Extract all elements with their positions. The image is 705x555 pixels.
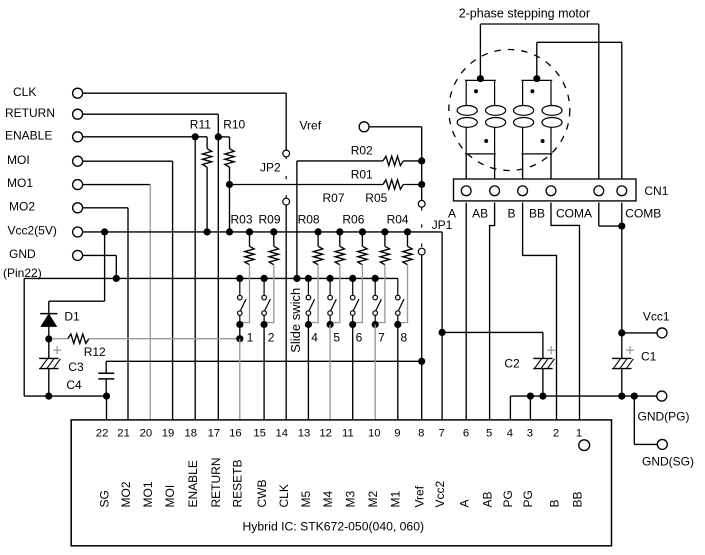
svg-text:R09: R09 — [259, 213, 281, 227]
node RETURN junction — [215, 133, 222, 140]
svg-text:22: 22 — [96, 428, 109, 440]
svg-text:PG: PG — [501, 490, 515, 507]
CN1 terminal B — [518, 186, 528, 196]
wire Vref down — [369, 126, 422, 128]
svg-text:CLK: CLK — [277, 484, 291, 507]
wire COMB from winding B — [536, 42, 538, 78]
wire BB to pin1 — [551, 203, 580, 420]
wire switch7 to pin10 — [374, 325, 376, 420]
node switch1 bottom — [236, 321, 243, 328]
wire switch4 to pin13 — [307, 325, 309, 420]
wire MOI to pin19 — [83, 160, 173, 162]
svg-text:7: 7 — [439, 428, 445, 440]
svg-text:BB: BB — [570, 491, 584, 507]
wire MO2 to pin21 — [83, 207, 128, 209]
terminal MO2 — [73, 203, 83, 213]
node pin8 C4 — [418, 358, 425, 365]
wire switch1 to pin16 — [239, 325, 241, 339]
svg-text:JP2: JP2 — [260, 161, 281, 175]
svg-text:8: 8 — [401, 331, 408, 345]
svg-text:7: 7 — [378, 331, 385, 345]
svg-text:MO2: MO2 — [9, 199, 35, 213]
node switch4 bottom — [305, 321, 312, 328]
svg-text:3: 3 — [527, 428, 533, 440]
svg-text:M3: M3 — [344, 491, 358, 508]
svg-text:R02: R02 — [351, 144, 373, 158]
node winding A center tap — [477, 75, 484, 82]
wire switch2 to pin15 — [263, 325, 265, 420]
svg-text:21: 21 — [117, 428, 130, 440]
svg-text:5: 5 — [486, 428, 492, 440]
svg-text:R12: R12 — [84, 345, 106, 359]
wire AB to pin5 — [490, 203, 495, 420]
node R02 rail — [293, 275, 300, 282]
node pin3 PG — [527, 393, 534, 400]
svg-text:R08: R08 — [298, 213, 320, 227]
svg-text:4: 4 — [507, 428, 513, 440]
wire ground rail — [24, 277, 398, 279]
svg-text:CN1: CN1 — [644, 184, 668, 198]
svg-text:RETURN: RETURN — [209, 458, 223, 508]
svg-text:ENABLE: ENABLE — [186, 460, 200, 507]
svg-text:20: 20 — [140, 428, 153, 440]
capacitor C2 — [533, 357, 552, 359]
svg-text:A: A — [448, 207, 456, 221]
svg-text:R03: R03 — [231, 213, 253, 227]
svg-text:Vref: Vref — [300, 119, 322, 133]
node R09 Vcc2 — [270, 228, 277, 235]
node D1-R12-C3 — [45, 335, 52, 342]
svg-text:1: 1 — [247, 331, 254, 345]
wire COMA link — [598, 203, 600, 227]
node R10 R01 — [226, 181, 233, 188]
node C3 ground — [45, 393, 52, 400]
svg-text:8: 8 — [418, 428, 424, 440]
svg-text:2: 2 — [553, 428, 559, 440]
svg-text:R11: R11 — [190, 117, 211, 131]
svg-text:R01: R01 — [351, 168, 373, 182]
node ENABLE junction — [192, 133, 199, 140]
slide switch 4 — [307, 278, 309, 295]
node switch6 rail — [349, 275, 356, 282]
slide switch 1 — [239, 278, 241, 295]
svg-text:B: B — [508, 207, 516, 221]
svg-text:R06: R06 — [342, 213, 364, 227]
svg-text:RESETB: RESETB — [231, 459, 245, 507]
resistor R03 — [249, 232, 251, 246]
connector CN1 box — [454, 179, 637, 201]
svg-text:MO2: MO2 — [119, 481, 133, 507]
node Vref-R01 — [418, 181, 425, 188]
resistor R07 — [339, 232, 341, 246]
CN1 terminal COMA — [594, 186, 604, 196]
node switch5 rail — [327, 275, 334, 282]
svg-text:9: 9 — [394, 428, 400, 440]
svg-text:11: 11 — [342, 428, 354, 440]
resistor R09 — [273, 232, 275, 246]
svg-text:Vcc2: Vcc2 — [433, 480, 447, 507]
wire to GND(SG) — [633, 396, 635, 444]
wire GND input — [83, 254, 117, 256]
motor winding B — [521, 79, 552, 81]
terminal MO1 — [73, 180, 83, 190]
svg-text:GND: GND — [9, 247, 36, 261]
svg-text:MO1: MO1 — [7, 176, 33, 190]
svg-text:M5: M5 — [299, 491, 313, 508]
svg-text:19: 19 — [162, 428, 175, 440]
resistor R08 — [317, 232, 319, 246]
node switch6 bottom — [349, 321, 356, 328]
terminal Vref — [359, 122, 369, 132]
svg-text:M1: M1 — [389, 491, 403, 508]
slide switch 2 — [263, 278, 265, 295]
svg-text:PG: PG — [521, 490, 535, 507]
slide switch 7 — [374, 278, 376, 295]
node switch1 rail — [236, 275, 243, 282]
resistor R01 — [230, 184, 384, 186]
svg-text:M2: M2 — [366, 491, 380, 508]
wire JP1 to pin8 — [421, 255, 423, 420]
node winding B center tap — [533, 75, 540, 82]
resistor R05 — [384, 232, 386, 246]
svg-text:Slide swich: Slide swich — [288, 288, 303, 353]
node Vcc2-D1 — [101, 228, 108, 235]
svg-text:2-phase stepping motor: 2-phase stepping motor — [459, 6, 590, 20]
terminal GND(PG) — [657, 391, 667, 401]
wire pin7 to C2 — [442, 331, 543, 333]
wire winding B leg B — [522, 154, 524, 179]
motor winding A — [465, 79, 496, 81]
svg-text:18: 18 — [185, 428, 198, 440]
svg-text:Vcc2(5V): Vcc2(5V) — [8, 224, 57, 238]
svg-text:B: B — [547, 499, 561, 507]
svg-text:COMB: COMB — [625, 207, 661, 221]
node R05 Vcc2 — [381, 228, 388, 235]
wire switch5 to pin12 — [329, 325, 331, 420]
svg-text:GND(PG): GND(PG) — [638, 409, 690, 423]
node R03 Vcc2 — [246, 228, 253, 235]
node switch7 rail — [372, 275, 379, 282]
svg-text:(Pin22): (Pin22) — [3, 266, 42, 280]
svg-text:AB: AB — [480, 491, 494, 507]
IC U1 box — [71, 420, 611, 546]
svg-text:D1: D1 — [64, 310, 80, 324]
node R11 Vcc2 — [204, 228, 211, 235]
capacitor C4 — [98, 372, 114, 374]
svg-text:COMA: COMA — [556, 207, 592, 221]
CN1 terminal BB — [546, 186, 556, 196]
terminal RETURN — [73, 109, 83, 119]
wire B to pin2 — [523, 203, 557, 420]
svg-text:RETURN: RETURN — [5, 106, 55, 120]
node switch5 bottom — [327, 321, 334, 328]
svg-text:A: A — [457, 499, 471, 507]
terminal CLK — [73, 88, 83, 98]
node C2 ground — [539, 393, 546, 400]
wire winding A leg A — [465, 154, 467, 179]
svg-text:C2: C2 — [504, 356, 520, 370]
node Vcc2 pin7 C2 — [439, 329, 446, 336]
node R08 Vcc2 — [315, 228, 322, 235]
node R04 Vcc2 — [404, 228, 411, 235]
wire winding B leg BB — [550, 154, 552, 179]
wire ENABLE — [83, 136, 196, 138]
node switch4 rail — [305, 275, 312, 282]
wire COMA from winding A — [479, 24, 481, 79]
wire RETURN — [83, 113, 219, 115]
svg-text:5: 5 — [333, 331, 340, 345]
svg-text:16: 16 — [229, 428, 242, 440]
motor outline dashed circle — [449, 50, 570, 171]
svg-text:MOI: MOI — [163, 485, 177, 508]
svg-text:R05: R05 — [365, 191, 387, 205]
resistor R02 — [297, 160, 383, 162]
node R07 Vcc2 — [336, 228, 343, 235]
wire winding A leg AB — [494, 154, 496, 179]
jumper JP2 — [283, 150, 290, 157]
svg-text:R04: R04 — [387, 213, 409, 227]
svg-text:13: 13 — [298, 428, 311, 440]
wire A to pin6 — [465, 203, 467, 420]
terminal Vcc2(5V) — [73, 227, 83, 237]
svg-text:Hybrid IC: STK672-050(040, 060: Hybrid IC: STK672-050(040, 060) — [243, 520, 425, 534]
capacitor C3 — [39, 357, 58, 359]
svg-text:15: 15 — [253, 428, 266, 440]
svg-text:C1: C1 — [641, 349, 657, 363]
svg-text:AB: AB — [472, 207, 488, 221]
svg-text:C3: C3 — [68, 360, 84, 374]
node R06 Vcc2 — [359, 228, 366, 235]
wire COMB down to C1 — [621, 203, 623, 359]
wire CLK to JP2 — [83, 92, 287, 94]
slide switch 8 — [397, 278, 399, 295]
node switch8 bottom — [394, 321, 401, 328]
svg-text:ENABLE: ENABLE — [5, 128, 52, 142]
node R10 Vcc2 — [226, 228, 233, 235]
svg-text:MOI: MOI — [7, 153, 30, 167]
svg-text:17: 17 — [208, 428, 221, 440]
node COMA-COMB — [618, 223, 625, 230]
slide switch 5 — [329, 278, 331, 295]
svg-text:12: 12 — [319, 428, 332, 440]
terminal MOI — [73, 156, 83, 166]
CN1 terminal COMB — [617, 186, 627, 196]
svg-text:MO1: MO1 — [141, 481, 155, 507]
resistor R10 — [218, 136, 229, 138]
wire Vcc2 rail — [83, 231, 443, 233]
wire PG ground line — [510, 395, 656, 397]
node switch1 R12 — [236, 335, 243, 342]
node switch7 bottom — [372, 321, 379, 328]
svg-text:4: 4 — [311, 331, 318, 345]
wire Vcc2 to D1 — [104, 232, 106, 301]
svg-text:CLK: CLK — [13, 85, 36, 99]
slide switch 6 — [352, 278, 354, 295]
wire switch8 to pin9 — [397, 325, 399, 420]
resistor R12 — [52, 338, 68, 340]
svg-text:R10: R10 — [223, 117, 245, 131]
wire C4 to Vref pin8 — [106, 360, 422, 362]
node Vref-R02 — [418, 157, 425, 164]
IC pin1 marker circle — [579, 440, 590, 451]
node switch2 bottom — [261, 321, 268, 328]
svg-text:14: 14 — [276, 428, 289, 440]
wire R02 to rail — [296, 161, 298, 279]
node switch2 rail — [261, 275, 268, 282]
svg-text:BB: BB — [529, 207, 545, 221]
svg-text:6: 6 — [356, 331, 363, 345]
svg-text:6: 6 — [463, 428, 469, 440]
wire pin3 riser — [529, 396, 531, 420]
wire pin22 SG — [106, 396, 108, 420]
node GND-rail — [113, 275, 120, 282]
svg-text:M4: M4 — [321, 491, 335, 508]
terminal GND — [73, 250, 83, 260]
node PG-SG link — [631, 393, 638, 400]
svg-text:GND(SG): GND(SG) — [642, 454, 694, 468]
wire switch6 to pin11 — [352, 325, 354, 420]
node C1 ground — [618, 393, 625, 400]
wire JP2 to pin14 CLK — [285, 205, 287, 420]
node Vcc1 junction — [618, 329, 625, 336]
capacitor C1 — [612, 357, 631, 359]
svg-text:Vcc1: Vcc1 — [643, 310, 670, 324]
node C4 SG pin22 — [103, 393, 110, 400]
wire MO1 to pin20 — [83, 184, 151, 186]
CN1 terminal AB — [490, 186, 500, 196]
resistor R04 — [407, 232, 409, 246]
svg-text:CWB: CWB — [255, 480, 269, 508]
jumper JP1 — [418, 200, 425, 207]
svg-text:10: 10 — [368, 428, 381, 440]
resistor R06 — [361, 232, 363, 246]
svg-text:R07: R07 — [323, 191, 345, 205]
terminal Vcc1 — [657, 328, 667, 338]
svg-text:Vref: Vref — [413, 485, 427, 507]
svg-text:C4: C4 — [66, 378, 82, 392]
CN1 terminal A — [461, 186, 471, 196]
wire Vcc1 — [622, 332, 657, 334]
terminal ENABLE — [73, 132, 83, 142]
svg-text:2: 2 — [268, 331, 275, 345]
diode D1 — [40, 313, 57, 315]
svg-text:SG: SG — [97, 490, 111, 507]
resistor R11 — [195, 136, 207, 138]
terminal GND(SG) — [657, 439, 667, 449]
svg-text:1: 1 — [576, 428, 582, 440]
